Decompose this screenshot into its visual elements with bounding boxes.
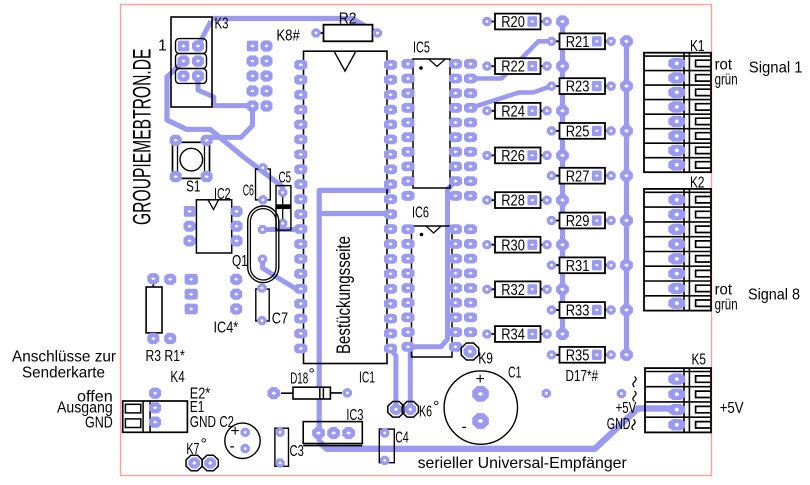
svg-text:GND: GND xyxy=(190,414,216,431)
resistor R29 xyxy=(547,213,633,230)
svg-text:R24: R24 xyxy=(501,103,525,120)
connector K8 pads xyxy=(247,40,273,111)
wire odd resistor bus xyxy=(624,41,629,353)
ic IC5 pins right column + via row xyxy=(449,59,477,201)
resistor R31 xyxy=(547,257,633,274)
ic IC5 outline xyxy=(413,59,450,188)
svg-text:R35: R35 xyxy=(566,347,590,364)
ic IC3 xyxy=(303,422,362,446)
ic IC1 pins left column xyxy=(294,60,307,354)
resistor R3 xyxy=(146,273,162,344)
resistor R21 xyxy=(547,33,633,51)
wire C5 bottom stub xyxy=(280,223,285,229)
wire K3 to R2 (top) xyxy=(212,19,378,34)
capacitor C6 xyxy=(256,163,271,204)
svg-text:GND: GND xyxy=(85,415,113,432)
resistor R22 xyxy=(482,58,569,76)
svg-text:C1: C1 xyxy=(508,365,521,382)
resistor R32 xyxy=(482,281,569,299)
svg-text:grün: grün xyxy=(715,72,738,89)
resistor R25 xyxy=(547,123,633,140)
label squiggle row1 xyxy=(633,377,636,387)
resistor R2 xyxy=(311,25,382,42)
resistor R33 xyxy=(547,302,633,320)
wire K3 pin3 to C5 top xyxy=(167,61,283,193)
svg-text:IC4*: IC4* xyxy=(214,320,239,337)
wire S1 to K8 pad xyxy=(204,106,253,137)
svg-text:1: 1 xyxy=(158,38,167,55)
svg-text:R2: R2 xyxy=(339,11,357,28)
pad K9 xyxy=(461,343,479,360)
resistor R27 xyxy=(547,168,633,185)
svg-text:K3: K3 xyxy=(215,16,229,33)
crystal Q1 xyxy=(248,206,279,283)
svg-text:R33: R33 xyxy=(566,303,590,320)
svg-text:°: ° xyxy=(309,366,315,383)
svg-text:R26: R26 xyxy=(501,148,525,165)
connector K5 xyxy=(645,368,711,432)
svg-text:C7: C7 xyxy=(272,311,288,328)
svg-text:R34: R34 xyxy=(501,327,525,344)
svg-text:GND: GND xyxy=(607,416,631,433)
svg-text:C3: C3 xyxy=(290,443,304,460)
svg-text:R22: R22 xyxy=(501,59,525,76)
wire IC1 pin to bus vertical xyxy=(319,190,390,441)
capacitor C1 xyxy=(444,371,517,445)
svg-text:IC3: IC3 xyxy=(346,407,363,424)
resistor R35 xyxy=(547,347,633,365)
svg-text:°: ° xyxy=(201,436,207,453)
svg-text:S1: S1 xyxy=(186,179,200,196)
svg-text:D18: D18 xyxy=(290,371,308,388)
svg-text:R31: R31 xyxy=(566,258,590,275)
switch S1 xyxy=(170,135,213,183)
wire pad to R21 xyxy=(471,41,552,78)
ic IC6 outline xyxy=(412,226,453,357)
svg-text:grün: grün xyxy=(715,297,738,314)
svg-text:K2: K2 xyxy=(690,175,705,192)
svg-text:+5V: +5V xyxy=(616,400,637,417)
svg-text:Anschlüsse zur: Anschlüsse zur xyxy=(12,348,117,365)
ic IC2 xyxy=(184,200,243,253)
label squiggle row2 xyxy=(633,391,636,401)
resistor R30 xyxy=(482,237,569,255)
resistor R34 xyxy=(482,326,569,343)
label GROUPIEMEBTRON.DE xyxy=(129,49,156,226)
pads K6 xyxy=(388,402,419,418)
resistor R1 pads xyxy=(164,274,176,344)
svg-text:Signal 1: Signal 1 xyxy=(749,60,803,77)
svg-text:R32: R32 xyxy=(501,282,525,299)
wire K3 pin5 to K8 xyxy=(198,76,253,106)
diode D17 pads xyxy=(542,389,627,399)
wire pad to R23 xyxy=(471,86,552,108)
wire Q1 bottom to IC1 pin xyxy=(263,259,302,289)
svg-text:R21: R21 xyxy=(566,34,590,51)
svg-text:Signal 8: Signal 8 xyxy=(748,287,800,304)
svg-text:R30: R30 xyxy=(501,237,525,254)
resistor R20 xyxy=(482,14,569,32)
svg-text:Bestückungsseite: Bestückungsseite xyxy=(333,236,355,354)
svg-text:IC2: IC2 xyxy=(214,186,231,203)
ic IC6 pins left column xyxy=(402,224,415,351)
svg-text:K1: K1 xyxy=(690,38,705,55)
svg-text:-: - xyxy=(462,419,467,436)
wire IC1 pin branch xyxy=(319,211,390,216)
ic IC6 pins right column + via row xyxy=(449,224,477,351)
svg-text:K7: K7 xyxy=(186,441,199,458)
label Bestückungsseite xyxy=(333,236,355,354)
capacitor C7 xyxy=(256,283,269,325)
connector K2 xyxy=(644,189,711,311)
wire IC1 pin to K6 left xyxy=(391,349,396,410)
svg-text:C5: C5 xyxy=(279,170,292,187)
svg-text:Senderkarte: Senderkarte xyxy=(22,364,105,381)
svg-text:K5: K5 xyxy=(692,352,707,369)
svg-text:R27: R27 xyxy=(566,168,590,185)
svg-text:+5V: +5V xyxy=(720,400,744,417)
resistor R23 xyxy=(547,78,633,95)
svg-text:GROUPIEMEBTRON.DE: GROUPIEMEBTRON.DE xyxy=(129,49,156,226)
wire IC6 inner run to K6 right xyxy=(410,181,455,409)
svg-text:D17*#: D17*# xyxy=(566,368,599,385)
wire bottom supply run to K5 +5V xyxy=(319,408,675,448)
board outline xyxy=(121,5,712,476)
svg-text:R20: R20 xyxy=(501,14,525,31)
resistor R28 xyxy=(482,192,569,209)
label GND (K5) xyxy=(607,416,635,433)
svg-text:+: + xyxy=(476,371,485,388)
resistor R26 xyxy=(482,148,569,166)
diode D18 xyxy=(267,387,352,399)
svg-text:R23: R23 xyxy=(566,79,590,96)
wire K3 pin2 to corner xyxy=(198,21,211,46)
svg-text:-: - xyxy=(230,438,235,455)
svg-text:C4: C4 xyxy=(395,430,408,447)
connector K3 xyxy=(171,17,212,107)
svg-text:K4: K4 xyxy=(170,369,184,386)
ic IC4 pads xyxy=(185,274,243,315)
svg-text:K8#: K8# xyxy=(276,28,299,45)
ic IC1 pins right column xyxy=(384,60,397,354)
svg-text:R28: R28 xyxy=(501,193,525,210)
svg-text:R25: R25 xyxy=(566,123,590,140)
ic IC1 outline xyxy=(304,51,388,363)
svg-text:serieller Universal-Empfänger: serieller Universal-Empfänger xyxy=(418,455,628,472)
capacitor C5 xyxy=(276,186,291,231)
capacitor C3 xyxy=(275,428,289,468)
pads K7 xyxy=(186,455,218,471)
svg-text:IC6: IC6 xyxy=(412,205,429,222)
svg-text:IC5: IC5 xyxy=(413,40,430,57)
connector K1 xyxy=(644,53,711,173)
wire Q1 top / C5 bottom to IC1 pin xyxy=(263,227,302,232)
svg-text:K9: K9 xyxy=(478,351,493,368)
capacitor C2 xyxy=(225,423,260,459)
svg-text:Q1: Q1 xyxy=(232,253,248,270)
svg-text:C6: C6 xyxy=(243,183,254,200)
resistor R24 xyxy=(482,103,569,120)
svg-text:R29: R29 xyxy=(566,213,590,230)
svg-text:°: ° xyxy=(433,399,439,416)
ic IC5 pins left column xyxy=(402,59,415,201)
svg-text:R3 R1*: R3 R1* xyxy=(146,348,185,365)
capacitor C4 xyxy=(379,428,394,465)
connector K4 xyxy=(123,388,188,433)
svg-text:IC1: IC1 xyxy=(359,370,375,387)
svg-text:K6: K6 xyxy=(419,404,432,421)
svg-text:C2: C2 xyxy=(219,414,234,431)
wire even resistor bus xyxy=(560,21,565,334)
